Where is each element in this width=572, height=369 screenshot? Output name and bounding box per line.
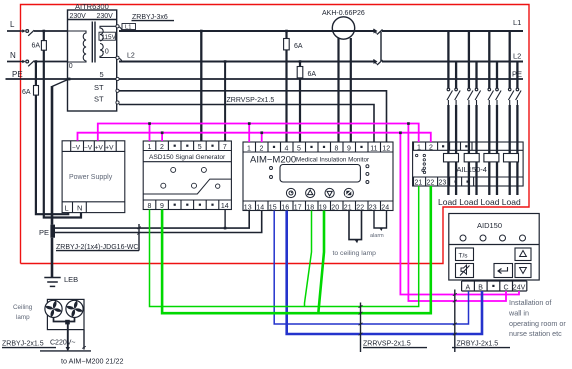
- CT secondary lead to AIM 8: [337, 38, 339, 142]
- wire +V drop to AIM 1: [248, 124, 250, 143]
- svg-text:12: 12: [382, 145, 390, 152]
- fuse F2 6A on N feed: [34, 86, 39, 96]
- load branch wires L2 side (4 circuits): [456, 62, 517, 196]
- terminals 1,2,.,.,5,.,7 (ASD150 top): [148, 141, 227, 151]
- terminal 23 (AIL150): [449, 177, 451, 186]
- terminal +V2: [115, 141, 117, 152]
- svg-text:0: 0: [69, 63, 73, 70]
- wire PE vertical to PE bar: [51, 86, 54, 225]
- connector secondary 0 to L2 line: [119, 58, 123, 61]
- svg-text:L2: L2: [513, 52, 521, 61]
- svg-text:+V: +V: [95, 145, 104, 152]
- svg-text:13: 13: [244, 204, 252, 211]
- svg-text:18: 18: [306, 204, 314, 211]
- svg-text:A: A: [466, 284, 471, 291]
- wire PE horizontal main: [6, 78, 524, 80]
- svg-text:6A: 6A: [308, 71, 317, 78]
- svg-text:17: 17: [294, 204, 302, 211]
- label box L1 at transformer output: [122, 24, 136, 30]
- svg-text:Load Load Load Load: Load Load Load Load: [438, 197, 521, 207]
- svg-text:AKH-0.66P26: AKH-0.66P26: [322, 10, 365, 17]
- svg-text:AIL150-4: AIL150-4: [457, 165, 487, 174]
- svg-text:L: L: [10, 20, 15, 29]
- svg-text:5: 5: [198, 144, 202, 151]
- locator CT window circuit1: [444, 154, 459, 162]
- switch QL on L: [20, 29, 34, 36]
- svg-text:ZRBYJ-2x1.5: ZRBYJ-2x1.5: [2, 341, 44, 348]
- wire ASD150 14 to PE line: [224, 210, 226, 229]
- svg-text:N: N: [77, 204, 82, 213]
- svg-text:L: L: [65, 204, 69, 213]
- power supply U1: [62, 141, 125, 213]
- AIL150 indicator circles: [416, 154, 426, 173]
- insulation monitor U3 AIM-M200: [243, 142, 393, 211]
- wire C supply to AID150: [408, 124, 506, 302]
- svg-text:·0: ·0: [103, 49, 109, 56]
- svg-text:11: 11: [370, 145, 377, 152]
- svg-text:2: 2: [160, 144, 164, 151]
- dimension line ZRRVSP (RS485 cable): [360, 303, 362, 353]
- terminal 1 (AIL150): [413, 142, 415, 150]
- AID150 button up: [515, 248, 531, 261]
- svg-text:PE: PE: [12, 70, 23, 79]
- svg-text:C220V~: C220V~: [50, 340, 76, 347]
- svg-text:T/s: T/s: [459, 253, 469, 260]
- AIM button 3 (down): [325, 188, 334, 197]
- svg-text:19: 19: [319, 204, 327, 211]
- breaker QF3 (circuit 3): [487, 88, 501, 105]
- wire PE to AIM 13: [55, 211, 249, 229]
- svg-text:7: 7: [223, 144, 227, 151]
- svg-text:B: B: [478, 284, 483, 291]
- wire lamp E2 down: [68, 318, 75, 322]
- locator CT window circuit4: [504, 154, 519, 162]
- transformer core: [91, 22, 93, 63]
- wire N to transformer 0: [34, 61, 68, 63]
- svg-text:Power Supply: Power Supply: [69, 174, 113, 181]
- wire N feed down (to power supply): [36, 62, 68, 215]
- junction dot PE tap: [68, 78, 71, 81]
- wire gen loop 1 (green, ASD150 8 - AIM 18 - AIL150 21): [150, 186, 419, 307]
- svg-text:6A: 6A: [22, 89, 31, 96]
- svg-text:1: 1: [417, 144, 421, 151]
- svg-text:C: C: [504, 284, 509, 291]
- svg-text:23: 23: [369, 204, 377, 211]
- svg-text:24V: 24V: [513, 284, 526, 291]
- svg-text:wall in: wall in: [508, 309, 529, 318]
- AIM button 4 (mute): [344, 188, 353, 197]
- terminal dot cells bottom: [461, 177, 463, 186]
- svg-text:2: 2: [429, 144, 433, 151]
- terminals 1,2,.,4,5,.,.,8,9,.,11,12 (AIM top): [247, 142, 390, 152]
- fuse F1 6A on L feed: [41, 41, 46, 51]
- breaker QF1 (circuit 1): [446, 88, 460, 105]
- svg-text:16: 16: [281, 204, 289, 211]
- AIM display window: [280, 165, 360, 183]
- svg-text:9: 9: [160, 203, 164, 210]
- wire ST1 from transformer to AIM 12: [119, 91, 387, 142]
- svg-text:L2: L2: [127, 53, 135, 60]
- AIM small circles right: [366, 165, 369, 184]
- cabinet boundary (red): [21, 5, 530, 264]
- ASD150 changeover contact line: [143, 179, 231, 194]
- lamp E1: [45, 300, 62, 317]
- terminals 8,9,.,.,.,.,14 (ASD150 bottom): [143, 199, 231, 201]
- CT secondary lead to AIM 9: [350, 38, 352, 142]
- leader line C220V: [83, 330, 85, 350]
- svg-text:6A: 6A: [294, 43, 303, 50]
- terminal 22 (AIL150): [437, 177, 439, 186]
- svg-text:ZRRVSP-2x1.5: ZRRVSP-2x1.5: [363, 341, 411, 348]
- AID150 button mute: [456, 264, 474, 278]
- signal generator U2 ASD150: [143, 141, 231, 210]
- svg-text:ZRBYJ-2x1.5: ZRBYJ-2x1.5: [457, 341, 499, 348]
- terminals 13..24 (AIM bottom): [243, 200, 393, 202]
- svg-text:L1: L1: [125, 25, 131, 31]
- AID150 button down: [515, 264, 531, 278]
- junction dots magenta rails: [148, 122, 410, 134]
- junction lamps: [65, 320, 70, 325]
- wire 24V supply to AID150: [400, 133, 519, 295]
- AIM button 1 (clock): [286, 188, 295, 197]
- svg-text:+V: +V: [105, 145, 114, 152]
- svg-text:LEB: LEB: [64, 275, 78, 284]
- svg-text:14: 14: [221, 203, 229, 210]
- wire -V drop to ASD150 2: [161, 133, 163, 141]
- svg-text:9: 9: [347, 145, 351, 152]
- svg-text:nurse station etc: nurse station etc: [509, 329, 562, 338]
- terminal L (power supply): [62, 201, 125, 203]
- svg-text:21: 21: [415, 180, 423, 187]
- terminal circles on transformer right edge: [116, 25, 119, 104]
- switch QS2 on L2: [374, 59, 383, 65]
- svg-text:ASD150 Signal Generator: ASD150 Signal Generator: [149, 154, 226, 161]
- wire RS485 B (blue thick, AIM 16 to AID150 B): [287, 211, 482, 335]
- svg-text:1: 1: [148, 144, 152, 151]
- svg-text:ZRRVSP-2x1.5: ZRRVSP-2x1.5: [227, 97, 275, 104]
- label 115V tap: [99, 32, 115, 40]
- svg-text:4: 4: [285, 145, 289, 152]
- svg-text:−V: −V: [84, 145, 93, 152]
- svg-text:L1: L1: [513, 18, 521, 27]
- svg-text:6A: 6A: [32, 43, 41, 50]
- switch linkage QS: [380, 32, 382, 62]
- svg-text:22: 22: [427, 180, 435, 187]
- fuse F4 6A feed to AIM 5: [299, 62, 301, 143]
- terminal N (power supply): [85, 202, 87, 213]
- locator CT window circuit3: [484, 154, 499, 162]
- svg-text:15: 15: [269, 204, 277, 211]
- locator CT window circuit2: [464, 154, 479, 162]
- breaker QF4 (circuit 4): [507, 88, 521, 105]
- fuse F3 6A feed to AIM 4: [285, 31, 287, 142]
- bus +V (magenta upper rail): [98, 124, 506, 302]
- svg-text:lamp: lamp: [16, 314, 30, 321]
- wire PE to AIM 14: [55, 211, 262, 233]
- wire ASD150 pin5 sense feed from L1: [200, 31, 202, 141]
- breaker QF2 (circuit 2): [467, 88, 481, 105]
- switch QN on N: [20, 60, 34, 67]
- leader tick for PE cable label: [138, 224, 140, 251]
- svg-text:230V: 230V: [70, 13, 87, 20]
- wire +V drop to ASD150 1: [149, 124, 151, 142]
- ground LEB: [44, 278, 60, 287]
- bus -V (magenta lower rail): [78, 133, 520, 295]
- ceiling lamp box: [47, 299, 84, 329]
- transformer primary winding: [68, 31, 87, 62]
- terminal dot cell top: [449, 142, 451, 150]
- connector secondary 230V to L1 line: [119, 27, 123, 31]
- svg-text:alarm: alarm: [370, 233, 384, 239]
- wire L input: [7, 30, 20, 32]
- svg-text:AID150: AID150: [477, 221, 502, 230]
- wire lamp E1 down: [54, 318, 68, 322]
- svg-text:ST: ST: [94, 95, 104, 104]
- svg-text:20: 20: [331, 204, 339, 211]
- wire AIM 21-22 loop to ceiling lamp: [349, 211, 362, 240]
- wire gen loop 2 (green thick, ASD150 9 - AIM 19 - AIL150 22): [162, 186, 431, 313]
- wire L feed down (to power supply): [44, 31, 81, 218]
- wire ST2 from transformer to AIM 11: [119, 105, 374, 143]
- wire L1 secondary line: [119, 30, 523, 32]
- svg-text:N: N: [10, 51, 16, 60]
- svg-text:Medical Insulation Monitor: Medical Insulation Monitor: [296, 157, 369, 164]
- wire N input: [7, 61, 20, 63]
- svg-text:5: 5: [297, 145, 301, 152]
- svg-text:21: 21: [344, 204, 352, 211]
- svg-text:14: 14: [256, 204, 264, 211]
- svg-text:8: 8: [148, 203, 152, 210]
- svg-text:1: 1: [247, 145, 251, 152]
- svg-text:23: 23: [439, 180, 447, 187]
- wire PE drop diagonal from junction: [52, 79, 69, 87]
- svg-text:Installation of: Installation of: [509, 298, 551, 307]
- switch QS1 on L1: [374, 29, 383, 35]
- note installation location (gray): [508, 298, 566, 338]
- terminal 2 (AIL150): [437, 142, 439, 150]
- svg-text:2: 2: [260, 145, 264, 152]
- terminal -V1: [70, 141, 72, 152]
- svg-text:5: 5: [100, 70, 104, 79]
- dimension line ZRBYJ (24V cable): [454, 290, 456, 353]
- junction dots on top lines: [35, 30, 302, 63]
- svg-text:22: 22: [356, 204, 364, 211]
- wire ASD150 pin7 sense feed from L2: [224, 62, 226, 142]
- AID150 button enter: [494, 264, 513, 278]
- wire L to transformer primary: [34, 30, 68, 32]
- svg-text:ST: ST: [94, 83, 104, 92]
- wire PE vertical below bar to LEB: [51, 238, 54, 278]
- svg-text:24: 24: [381, 204, 389, 211]
- svg-text:operating room or: operating room or: [509, 319, 566, 328]
- wire -V drop to AIM 2: [261, 133, 263, 142]
- load branch wires L1 side (4 circuits): [448, 31, 509, 195]
- terminal 21 (AIL150): [413, 177, 415, 186]
- AIM button 2 (up): [306, 188, 315, 197]
- insulation fault locator U4 AIL150-4: [413, 142, 523, 187]
- wire RS485 A (blue, AIM 15 to AID150 A): [274, 211, 468, 325]
- svg-text:230V: 230V: [97, 13, 114, 20]
- svg-text:to ceiling lamp: to ceiling lamp: [333, 250, 377, 257]
- svg-text:to AIM−M200 21/22: to AIM−M200 21/22: [61, 357, 124, 366]
- baseline under lamp note: [40, 350, 91, 352]
- terminal +V1: [104, 141, 106, 152]
- AIM small circles left: [270, 167, 273, 179]
- AID150 button T/s: [456, 248, 474, 261]
- ASD150 internal circles: [161, 167, 220, 188]
- wire lamps feed down with arrow: [67, 322, 69, 348]
- svg-text:PE: PE: [39, 228, 49, 237]
- lamp E2: [66, 300, 83, 317]
- AID150 terminal strip A,B,.,C,24V: [461, 281, 463, 291]
- svg-text:−V: −V: [72, 145, 81, 152]
- wire AIM 23-24 alarm loop: [374, 211, 387, 229]
- terminal -V2: [93, 141, 95, 152]
- AID150 led circles: [460, 235, 526, 241]
- svg-text:Ceiling: Ceiling: [13, 304, 33, 311]
- svg-text:8: 8: [335, 145, 339, 152]
- transformer secondary winding 230V/115V: [100, 26, 117, 57]
- svg-text:AIM−M200: AIM−M200: [250, 155, 296, 166]
- remote indicator U5 AID150: [449, 214, 539, 292]
